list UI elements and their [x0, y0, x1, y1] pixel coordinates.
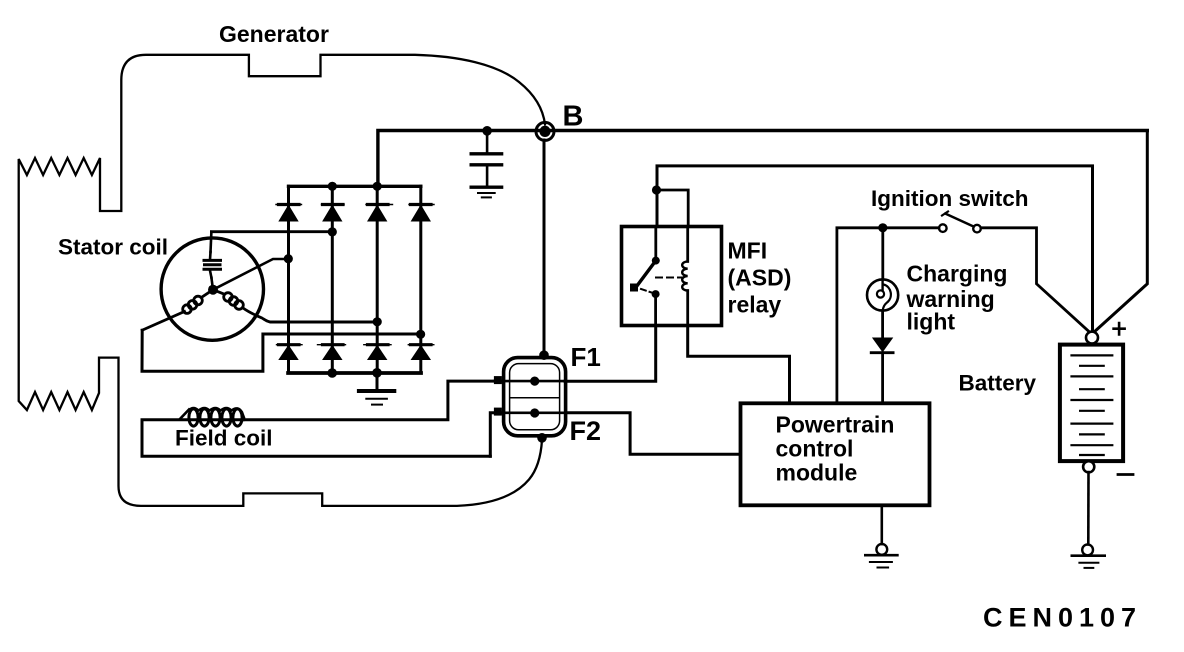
wire diode to PCM	[881, 353, 884, 404]
svg-text:B: B	[563, 101, 584, 133]
rectifier column 3 wire	[376, 186, 379, 373]
rectifier column 4 wire	[419, 186, 422, 373]
wire ignition feed (PCM to switch)	[837, 228, 939, 403]
svg-text:relay: relay	[728, 292, 782, 318]
junction bottom bus column3	[372, 368, 382, 378]
stator lower-left phase coil	[142, 290, 213, 331]
junction neutral-column1	[284, 254, 293, 263]
capacitor ground	[471, 187, 501, 197]
rectifier ground	[359, 391, 394, 405]
battery BT1 body	[1060, 345, 1123, 462]
svg-text:Generator: Generator	[219, 21, 329, 47]
diode D4 (top row col4)	[409, 205, 434, 222]
rectifier column 2 wire	[331, 186, 334, 373]
battery ground	[1072, 545, 1105, 568]
wire B line right drop to battery	[1093, 131, 1147, 334]
diode D3 (top row col3)	[366, 205, 393, 222]
wire stator top phase to rectifier column 2	[211, 230, 332, 233]
diode D8 (bottom row col4)	[408, 345, 434, 360]
svg-text:Battery: Battery	[959, 371, 1037, 396]
connector bottom pin junction	[537, 433, 547, 443]
junction phase-column3	[373, 317, 382, 326]
svg-text:CEN0107: CEN0107	[983, 603, 1142, 633]
rectifier bottom bus	[288, 371, 421, 375]
diode D6 (bottom row col2)	[318, 345, 346, 360]
rectifier top bus	[289, 185, 421, 188]
relay actuation dashed link	[641, 289, 653, 293]
battery negative terminal	[1083, 461, 1094, 472]
wire rectifier top bus to B line	[378, 131, 1147, 187]
stator neutral lead (diagonal)	[213, 259, 288, 290]
wire lamp to diode	[881, 311, 884, 338]
connector pin F1 line	[494, 380, 566, 383]
svg-text:F1: F1	[571, 342, 601, 372]
wire lower-left phase to rectifier column 4	[142, 330, 421, 371]
diode D2 (top row col2)	[322, 205, 345, 222]
generator enclosure outline	[19, 55, 545, 506]
Powertrain control module box U2	[741, 403, 930, 505]
junction warning light tap	[878, 223, 887, 232]
svg-text:control: control	[776, 436, 854, 462]
wire PCM ground stem	[880, 505, 883, 544]
svg-text:Ignition switch: Ignition switch	[871, 186, 1029, 211]
ignition switch S1	[939, 212, 981, 233]
connector top pin junction	[539, 350, 549, 360]
wire F2 to PCM	[566, 413, 741, 455]
stator top phase coil	[204, 232, 221, 290]
junction phase2-column2	[328, 227, 337, 236]
svg-text:F2: F2	[570, 416, 602, 446]
diode D5 (bottom row col1)	[277, 345, 303, 360]
wire battery to ground	[1087, 472, 1090, 544]
battery B+ terminal	[1086, 332, 1098, 344]
svg-text:Charging: Charging	[907, 261, 1008, 287]
PCM ground	[865, 544, 897, 568]
junction bottom bus column2	[327, 368, 337, 378]
relay switch contact top	[654, 227, 657, 261]
label −	[1118, 473, 1133, 476]
label +	[1114, 323, 1125, 334]
junction phase-column4	[416, 330, 425, 339]
battery plates	[1072, 355, 1113, 455]
wire B node down to field connector F1 pin	[543, 140, 546, 355]
wire F1 to field coil top	[243, 381, 504, 420]
diode D9 (warning light)	[871, 338, 893, 353]
junction relay coil branch	[652, 185, 661, 194]
connector pin F2 line	[494, 411, 566, 414]
junction top bus column3	[373, 182, 382, 191]
svg-text:light: light	[907, 309, 956, 335]
rectifier column 1 wire	[287, 186, 290, 373]
junction top bus column2	[328, 182, 337, 191]
wire relay feed (B net to MFI relay and battery)	[657, 166, 1093, 333]
capacitor C1	[471, 131, 501, 187]
field connector body	[504, 358, 566, 436]
wire branch to relay coil pin	[657, 190, 689, 226]
relay switch contact bottom	[652, 290, 660, 298]
diode D1 (top row col1)	[276, 205, 302, 222]
rectifier ground stem	[376, 373, 379, 391]
MFI relay box U1	[622, 227, 722, 326]
wire relay switch to F1	[565, 326, 656, 382]
svg-text:module: module	[776, 460, 858, 486]
stator coil circle	[161, 238, 263, 340]
diode D7 (bottom row col3)	[364, 345, 391, 360]
wire warning light branch	[881, 228, 884, 280]
relay switch blade	[637, 261, 656, 287]
field coil L2	[142, 408, 490, 456]
stator lower-right phase coil	[213, 290, 271, 322]
stator center node	[208, 285, 218, 295]
wire switch to battery	[981, 228, 1090, 333]
junction capacitor tap	[482, 126, 492, 136]
relay coil L1	[686, 227, 689, 262]
connector middle divider	[510, 397, 559, 399]
svg-text:(ASD): (ASD)	[728, 265, 792, 291]
svg-text:Field coil: Field coil	[175, 426, 273, 451]
wire lower-right phase to rectifier column 3	[271, 321, 377, 324]
node B terminal	[536, 122, 554, 140]
charging warning lamp	[867, 279, 898, 310]
wire relay coil to PCM	[688, 326, 790, 404]
svg-text:Stator coil: Stator coil	[58, 235, 168, 260]
svg-text:Powertrain: Powertrain	[776, 412, 895, 438]
svg-text:MFI: MFI	[728, 238, 768, 264]
wire F2 to field coil bottom	[490, 413, 503, 456]
